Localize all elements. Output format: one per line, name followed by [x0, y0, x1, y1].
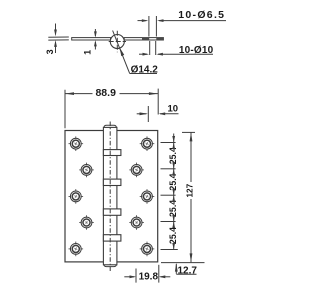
svg-text:12.7: 12.7: [177, 265, 197, 276]
dimension 10-Ø10: [139, 45, 214, 56]
hole extension lines (Ø10, down): [150, 41, 156, 55]
screw hole R2: [129, 163, 144, 178]
svg-text:88.9: 88.9: [95, 87, 116, 99]
screw hole R5: [140, 242, 155, 257]
top view: right leaf plate: [124, 38, 163, 40]
dimension 10 (edge to hole column): [137, 103, 179, 122]
screw hole L1: [69, 136, 84, 151]
svg-text:10-Ø10: 10-Ø10: [179, 45, 214, 56]
dimension 127: [182, 132, 195, 262]
knuckle circle (top view): [110, 35, 124, 49]
top view: left leaf plate: [72, 38, 111, 40]
dimension 1 (clearance): [82, 29, 96, 55]
bearing collar 4: [103, 235, 121, 241]
screw hole L2: [79, 163, 94, 178]
right side extension ticks + 25.4 chain: [161, 134, 178, 250]
dimension 12.7: [161, 263, 205, 277]
screw hole L4: [79, 215, 94, 230]
25.4 labels: [168, 147, 178, 244]
hole extension lines (Ø6.5, up): [149, 16, 157, 37]
dimension 10-Ø6.5: [138, 9, 227, 22]
screw hole R1: [140, 136, 155, 151]
svg-text:25.4: 25.4: [168, 227, 178, 244]
bearing collar 1: [103, 150, 121, 156]
front view: hinge plate rectangle: [65, 131, 158, 262]
svg-text:25.4: 25.4: [168, 173, 178, 190]
svg-text:19.8: 19.8: [139, 272, 159, 283]
knuckle barrel: [103, 125, 117, 266]
svg-text:Ø14.2: Ø14.2: [131, 65, 159, 76]
screw hole L3: [69, 189, 84, 204]
top view: left leaf break piece: [48, 37, 69, 40]
leader line to Ø14.2: [113, 31, 157, 74]
svg-text:25.4: 25.4: [168, 147, 178, 164]
barrel centerline: [109, 122, 111, 272]
dimension 3 (leaf thickness): [45, 24, 57, 55]
svg-text:10-Ø6.5: 10-Ø6.5: [178, 9, 225, 21]
screw hole L5: [69, 242, 84, 257]
svg-text:3: 3: [45, 49, 55, 54]
svg-text:127: 127: [186, 183, 195, 197]
bearing collar 2: [103, 179, 121, 185]
screw hole R4: [129, 215, 144, 230]
dimension 19.8: [124, 265, 170, 283]
svg-text:10: 10: [168, 103, 179, 114]
svg-text:1: 1: [82, 50, 92, 55]
svg-text:25.4: 25.4: [168, 200, 178, 217]
bearing collar 3: [103, 209, 121, 215]
circle centerlines: [109, 31, 126, 53]
screw hole R3: [140, 189, 155, 204]
25.4 chain arrowheads: [172, 136, 175, 250]
dimension 88.9: [65, 87, 158, 128]
